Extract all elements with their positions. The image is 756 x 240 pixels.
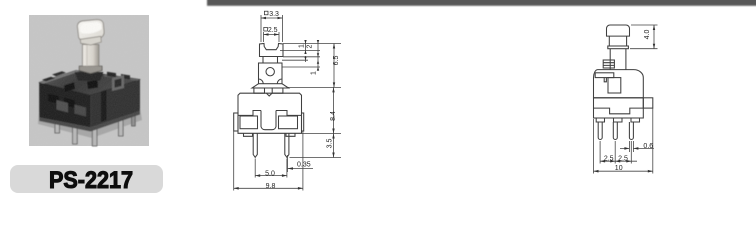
arrows 8.4 <box>332 87 334 92</box>
side view dimension arrows <box>594 25 656 173</box>
arrows col B lower 1 <box>317 60 319 64</box>
arrows col A up <box>304 57 306 61</box>
photo bushing collar <box>79 66 102 73</box>
pin center extension lines <box>600 141 631 164</box>
front view flange <box>252 84 289 88</box>
front view bushing corner arcs <box>259 79 283 84</box>
photo front recess 2 <box>75 105 87 117</box>
side view shaft <box>610 49 626 70</box>
arrows 5.0 <box>255 174 260 177</box>
arrows 0.6 <box>624 147 629 150</box>
side view pin 3 <box>629 122 633 140</box>
arrows col A 1 <box>304 40 306 44</box>
front view clip left <box>234 113 238 131</box>
side view pin 1 <box>598 122 602 140</box>
photo body top rim strip left <box>39 71 80 84</box>
front view dimension linework <box>234 15 341 191</box>
photo body top rim strip right <box>104 75 140 81</box>
side view upper housing <box>594 70 644 98</box>
front view foot right <box>272 88 283 93</box>
svg-text:5.0: 5.0 <box>265 170 275 177</box>
svg-text:3.5: 3.5 <box>327 139 334 149</box>
front view base foot left <box>244 133 253 136</box>
side view foot 2 <box>614 118 623 122</box>
front view bracket right <box>279 116 298 129</box>
front view dimension arrows <box>234 17 336 190</box>
arrows 2.5 <box>264 33 269 36</box>
svg-text:PS-2217: PS-2217 <box>49 166 133 193</box>
photo side groove <box>101 90 107 122</box>
side view left tab notch <box>604 78 606 82</box>
svg-text:2.5: 2.5 <box>618 155 628 162</box>
arrows 4.0 <box>653 25 655 30</box>
top header bar <box>207 0 756 6</box>
photo front tooth 1 <box>48 94 59 105</box>
svg-text:9.8: 9.8 <box>266 183 276 190</box>
photo side latch dark <box>115 78 122 88</box>
side view latch tab lines <box>603 63 614 66</box>
photo bushing base <box>75 72 104 81</box>
photo top slot 2 <box>87 80 98 89</box>
photo grain <box>29 15 149 146</box>
photo front tooth 2 <box>64 98 75 109</box>
photo pin 5 <box>132 110 136 126</box>
model label box <box>10 165 163 193</box>
side view collar <box>608 46 629 49</box>
dim 3.3 lines <box>261 15 283 42</box>
photo shaft left edge <box>86 45 88 66</box>
svg-text:10: 10 <box>615 165 623 172</box>
small dim col A <box>305 40 307 62</box>
side view dimension texts <box>604 30 653 172</box>
front view dimension texts <box>264 11 340 190</box>
photo top bump right 2 <box>121 74 130 80</box>
photo plunger shaft <box>83 45 99 67</box>
front view cap outline <box>260 44 284 57</box>
front view pin right <box>285 133 289 157</box>
photo base bevel <box>39 111 140 132</box>
photo cap flange <box>80 36 101 45</box>
switch photo: pushbutton switch <box>38 20 142 146</box>
photo body top face <box>39 71 140 96</box>
dim 3.5 line <box>333 134 335 158</box>
svg-text:1: 1 <box>299 44 306 48</box>
photo cap top facet <box>80 22 102 34</box>
side view pin 2 <box>613 122 617 140</box>
side view foot 1 <box>596 118 604 122</box>
photo top slot 1 <box>64 82 75 92</box>
side view neck <box>609 36 626 46</box>
dim 10 lines <box>594 109 653 174</box>
photo top bump left 2 <box>42 77 55 82</box>
dim 0.6 lines <box>620 141 654 152</box>
svg-text:3.3: 3.3 <box>269 11 279 18</box>
arrow 0.35 <box>288 167 294 170</box>
side view right clip <box>643 98 653 108</box>
side view cap <box>607 25 630 36</box>
arrows 10 <box>594 170 599 173</box>
dim 8.4 line <box>333 87 335 133</box>
dim 0.35 leader <box>288 155 314 172</box>
photo pin 3 <box>92 124 97 146</box>
front view base foot right <box>286 133 295 136</box>
arrows 3.5 <box>332 134 334 139</box>
front view foot left <box>254 88 265 93</box>
photo body shadow <box>38 108 142 138</box>
svg-text:8.4: 8.4 <box>330 111 337 121</box>
front view body outline <box>238 93 302 133</box>
front view body top notch <box>267 93 273 96</box>
svg-text:0.6: 0.6 <box>643 143 653 150</box>
dim 9.8 lines <box>234 132 303 191</box>
photo body right face <box>91 80 140 128</box>
side view inner rect <box>608 78 621 93</box>
svg-text:2.5: 2.5 <box>604 155 614 162</box>
photo body front face <box>39 83 90 128</box>
side view left tab <box>595 73 614 78</box>
arrows 6.5 <box>333 44 335 49</box>
photo pin 4 <box>119 115 124 136</box>
dim 6.5 line <box>333 44 335 88</box>
side view latch tab <box>603 60 614 68</box>
svg-text:0.35: 0.35 <box>297 161 311 168</box>
front view clip right <box>302 113 304 131</box>
front view bushing block <box>259 63 283 84</box>
photo side latch block <box>112 75 124 91</box>
front view center channel <box>261 111 276 130</box>
small dim col B <box>317 40 319 71</box>
svg-text:2: 2 <box>307 44 314 48</box>
side view foot 3 <box>631 118 640 122</box>
front view body shoulder <box>238 111 302 116</box>
dim 2.5 lines <box>264 32 280 42</box>
side view dimension linework <box>594 25 658 174</box>
side view channel step <box>594 108 644 114</box>
arrows col B 2 <box>317 40 319 44</box>
front view bracket left <box>240 116 258 129</box>
arrows 2.5 2.5 <box>600 160 605 163</box>
side view main body <box>594 98 644 118</box>
photo top bump left <box>52 71 66 76</box>
photo front recess 1 <box>57 100 69 113</box>
photo plunger cap <box>77 20 104 41</box>
arrows 9.8 <box>234 187 239 190</box>
right extension lines <box>280 44 341 158</box>
switch photo background <box>29 15 149 146</box>
svg-text:2.5: 2.5 <box>268 27 278 34</box>
dim 4.0 lines <box>630 25 658 49</box>
svg-text:6.5: 6.5 <box>333 56 340 66</box>
photo top bump right 1 <box>107 72 116 78</box>
front view bushing hole <box>266 68 274 76</box>
svg-text:1: 1 <box>311 71 318 75</box>
dim 2.5 2.5 line <box>600 160 637 162</box>
front view shaft <box>263 57 278 64</box>
svg-text:4.0: 4.0 <box>644 30 651 40</box>
front view pin left <box>253 133 257 157</box>
photo pin 1 <box>55 117 60 133</box>
photo pin 2 <box>73 122 78 144</box>
dim 5.0 lines <box>255 159 287 178</box>
arrows 3.3 <box>261 17 266 20</box>
